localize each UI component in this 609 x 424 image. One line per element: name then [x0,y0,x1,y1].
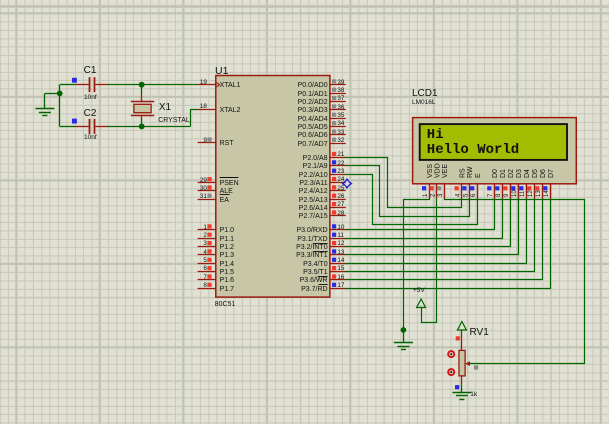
svg-text:P2.1/A9: P2.1/A9 [303,163,328,170]
svg-text:P0.3/AD3: P0.3/AD3 [298,107,328,114]
svg-text:D5: D5 [532,169,539,178]
svg-text:P3.2/INT0: P3.2/INT0 [296,244,328,251]
svg-text:32: 32 [337,137,345,144]
svg-text:P3.7/RD: P3.7/RD [301,286,327,293]
svg-text:CRYSTAL: CRYSTAL [158,117,190,124]
svg-text:P1.7: P1.7 [220,286,235,293]
svg-text:4: 4 [456,193,462,197]
svg-text:P1.3: P1.3 [220,252,235,259]
svg-text:30: 30 [200,185,208,192]
svg-text:13: 13 [337,249,345,256]
svg-text:XTAL1: XTAL1 [220,82,241,89]
svg-text:3: 3 [203,240,207,247]
svg-text:7: 7 [488,193,494,197]
svg-text:Hello World: Hello World [427,142,519,158]
svg-text:29: 29 [200,177,208,184]
svg-text:D0: D0 [492,169,499,178]
svg-text:D2: D2 [508,169,515,178]
svg-text:8: 8 [203,282,207,289]
svg-text:P0.6/AD6: P0.6/AD6 [298,132,328,139]
svg-text:+5V: +5V [413,287,425,294]
svg-text:Hi: Hi [427,127,444,143]
svg-text:19: 19 [200,79,208,86]
svg-text:33: 33 [337,129,345,136]
svg-text:6: 6 [471,193,477,197]
svg-text:P3.6/WR: P3.6/WR [300,277,328,284]
svg-text:15: 15 [337,265,345,272]
svg-text:3: 3 [438,193,444,197]
svg-text:34: 34 [337,120,345,127]
svg-text:P2.0/A8: P2.0/A8 [303,155,328,162]
svg-text:9: 9 [504,193,510,197]
svg-text:EA: EA [220,197,230,204]
svg-text:RW: RW [467,166,474,178]
svg-text:10: 10 [512,190,518,197]
svg-text:RS: RS [459,168,466,178]
svg-text:7: 7 [203,274,207,281]
svg-text:1: 1 [423,193,429,197]
svg-text:10nf: 10nf [84,94,97,101]
svg-text:18: 18 [200,103,208,110]
svg-text:P2.7/A15: P2.7/A15 [299,213,328,220]
svg-text:1k: 1k [470,391,478,398]
svg-text:5: 5 [203,257,207,264]
svg-text:6: 6 [203,265,207,272]
svg-text:VEE: VEE [442,164,449,178]
svg-text:17: 17 [337,282,345,289]
svg-text:LCD1: LCD1 [412,88,438,99]
svg-text:PSEN: PSEN [220,180,239,187]
svg-text:E: E [475,173,482,178]
svg-text:12: 12 [337,240,345,247]
svg-text:13: 13 [536,190,542,197]
svg-text:P3.1/TXD: P3.1/TXD [297,236,327,243]
svg-text:ALE: ALE [220,188,234,195]
svg-text:XTAL2: XTAL2 [220,107,241,114]
svg-text:P1.2: P1.2 [220,244,235,251]
svg-text:4: 4 [203,249,207,256]
svg-text:P0.7/AD7: P0.7/AD7 [298,141,328,148]
svg-text:35: 35 [337,112,345,119]
svg-text:P3.0/RXD: P3.0/RXD [296,227,327,234]
svg-text:22: 22 [337,160,345,167]
svg-text:VDD: VDD [434,163,441,178]
svg-text:P0.0/AD0: P0.0/AD0 [298,82,328,89]
svg-text:P0.2/AD2: P0.2/AD2 [298,99,328,106]
svg-text:P1.6: P1.6 [220,277,235,284]
svg-text:D1: D1 [500,169,507,178]
svg-text:P2.3/A11: P2.3/A11 [299,180,327,187]
svg-text:D4: D4 [524,169,531,178]
svg-text:P1.1: P1.1 [220,236,235,243]
svg-text:P3.5/T1: P3.5/T1 [303,269,328,276]
svg-text:P1.5: P1.5 [220,269,235,276]
svg-text:21: 21 [337,151,345,158]
svg-text:80C51: 80C51 [215,301,236,308]
svg-text:P0.4/AD4: P0.4/AD4 [298,116,328,123]
svg-text:38: 38 [337,87,345,94]
svg-text:14: 14 [337,257,345,264]
svg-text:27: 27 [337,201,345,208]
svg-text:LM016L: LM016L [412,99,436,106]
svg-text:9: 9 [203,137,207,144]
svg-text:P2.5/A13: P2.5/A13 [299,197,328,204]
svg-text:11: 11 [520,190,526,197]
svg-text:D3: D3 [516,169,523,178]
svg-text:P3.3/INT1: P3.3/INT1 [296,252,328,259]
svg-text:P2.2/A10: P2.2/A10 [299,172,328,179]
svg-text:D7: D7 [548,169,555,178]
svg-text:P2.6/A14: P2.6/A14 [299,205,328,212]
svg-text:P0.5/AD5: P0.5/AD5 [298,124,328,131]
svg-text:1: 1 [203,224,207,231]
svg-text:11: 11 [337,232,344,239]
svg-text:P1.0: P1.0 [220,227,235,234]
svg-text:25: 25 [337,185,345,192]
svg-text:16: 16 [337,274,345,281]
svg-text:12: 12 [528,190,534,197]
svg-text:P0.1/AD1: P0.1/AD1 [298,91,328,98]
svg-text:39: 39 [337,79,345,86]
svg-text:31: 31 [200,193,208,200]
svg-text:36: 36 [337,104,345,111]
svg-text:10nf: 10nf [84,134,97,141]
svg-text:28: 28 [337,210,345,217]
svg-text:C1: C1 [84,65,97,76]
svg-text:P1.4: P1.4 [220,261,235,268]
svg-text:D6: D6 [540,169,547,178]
svg-text:8: 8 [496,193,502,197]
svg-text:5: 5 [463,193,469,197]
svg-text:2: 2 [203,232,207,239]
svg-text:26: 26 [337,193,345,200]
svg-text:37: 37 [337,95,345,102]
svg-text:2: 2 [431,193,437,197]
svg-text:P3.4/T0: P3.4/T0 [303,261,328,268]
svg-text:P2.4/A12: P2.4/A12 [299,188,328,195]
svg-text:C2: C2 [84,108,97,119]
svg-text:23: 23 [337,168,345,175]
svg-text:14: 14 [544,190,550,197]
svg-text:RV1: RV1 [470,327,490,338]
svg-text:X1: X1 [159,102,172,113]
svg-text:10: 10 [337,224,345,231]
svg-text:U1: U1 [215,65,229,77]
svg-text:RST: RST [220,140,235,147]
svg-text:VSS: VSS [427,164,434,178]
